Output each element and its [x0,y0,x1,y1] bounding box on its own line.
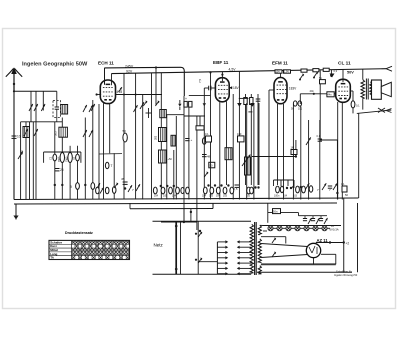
wire input top [14,91,57,100]
svg-text:EBF 11: EBF 11 [213,60,229,65]
wire EFM left [269,90,274,200]
label 4,5V [229,68,237,72]
padder cap [55,168,64,172]
label tube CL 11 [338,60,351,66]
svg-text:104: 104 [202,195,207,198]
bottom right cluster [329,183,348,197]
HT bus [112,69,387,74]
cap 0,1 mid right [317,135,323,141]
wire v x233.2 [232,94,234,200]
cap p2 [298,101,303,111]
wire h left block bottom [21,121,63,123]
wire v x343.75 [343,198,345,272]
wire CL bottom2 [341,102,343,200]
transformer tap comb right [237,240,252,275]
wire v x184 [183,96,185,222]
label Netz [154,243,164,248]
label 9+ [70,185,72,189]
cap p1 [291,101,297,111]
wire v x135.6 [135,73,137,199]
box 1M [291,146,298,155]
wire v x267.8 [267,203,269,223]
wire h y222 riser [183,209,185,223]
voltage selector comb left [217,240,228,275]
wire CL top2 [342,69,344,82]
tube ECH11 [100,80,115,104]
antenna [6,67,22,91]
speaker [372,80,392,99]
trimmer bottom left [96,183,100,190]
selector hook 2 [195,257,203,263]
rc pair 3 [319,218,328,224]
svg-text:9: 9 [70,185,72,189]
selector hook 1 [195,231,203,237]
box 50 right [209,162,215,168]
wire AZ bottom loop [313,258,315,265]
wire v x70.1 [69,146,71,200]
rc pair 2 [311,218,320,224]
resistor bottom A [76,183,80,190]
wire v x300.3 grid drop [299,94,301,104]
switch arrow c2 [89,105,93,112]
resistor r251 [250,98,253,105]
tuned circuit elements [49,153,80,163]
svg-text:4,5V: 4,5V [229,68,237,72]
wire v x20.6 [20,122,22,200]
wire v x156 [155,66,157,105]
wire mains entry [161,221,197,223]
wire ECH bottom lead2 [109,103,111,153]
svg-text:40n: 40n [310,89,315,93]
svg-text:100: 100 [237,132,242,136]
svg-text:7563: 7563 [66,156,69,162]
wire CL top [330,70,333,77]
cap EBF grid [204,86,211,91]
svg-text:245V: 245V [125,64,134,68]
tube CL11 [336,79,351,102]
wire v x99 [98,104,100,200]
wire v x29.5 [29,122,31,200]
selector tap wire [198,261,217,263]
wire v x43 [42,91,44,110]
wire h dashed y153 [99,153,122,155]
wire ECH plate [96,93,163,95]
wire v x54.8 [54,122,56,200]
power transformer secondary top [258,225,261,234]
antenna junction [13,83,15,93]
wire AZ loop vert [261,237,286,244]
junction triangle near CL [330,74,335,78]
label 245V [125,64,134,68]
wire v x36 [35,91,37,199]
wire v x319.8 [319,120,321,200]
coil osc main [160,110,167,118]
wire EBF top [221,72,223,81]
wire v x142.7 [142,95,144,200]
wire v x239.4 [238,72,240,200]
svg-text:Ingelen W-Geogr.50: Ingelen W-Geogr.50 [334,273,358,277]
loop rect below AZ [321,254,336,264]
coil mid lower [159,150,173,163]
svg-text:+50: +50 [168,158,173,161]
X mark on return [378,108,392,113]
audio coupling box [237,132,244,142]
switch hook anode bottom [272,251,276,257]
coil antenna [23,127,30,138]
wire v x92.8 [92,100,94,200]
wire v x358.7 [358,113,360,198]
wire v x204.3 [203,88,205,200]
svg-text:C1: C1 [49,156,53,160]
cap 44n on grid line [327,92,334,97]
mains rail top [153,220,252,222]
wire v x192 [188,107,190,199]
cap cross mid [146,108,152,118]
wire h y116 [184,115,205,117]
label tube EBF 11 [213,60,229,65]
power transformer secondary bottom [258,266,261,274]
wire v x85.3 [84,118,86,200]
wire 245V to detector [105,67,185,96]
svg-text:0,1: 0,1 [341,183,345,186]
voltage selector lead [197,221,199,274]
trimmer bottom mid [124,184,140,192]
switch arrow b1 [24,129,28,136]
wire heater return [263,230,267,232]
wire xfmr top [362,69,364,80]
cap c258 [256,99,261,101]
junction mains dots [190,211,202,232]
svg-text:0,3: 0,3 [334,69,338,73]
wire v x210.5 [210,88,212,200]
label 4V8 [117,87,123,94]
wire speaker bottom [371,94,372,95]
wire h y114.7 [166,114,184,116]
switch mid right [306,137,311,145]
heater lamp 1 [268,226,273,231]
wire EBF left grid [189,71,215,95]
svg-text:500: 500 [20,150,24,155]
switch arrow c3 [83,130,87,137]
svg-text:50n: 50n [273,210,278,214]
wire v x31 [30,91,32,122]
heater lamp 7 [322,226,327,231]
label 92V [126,70,133,74]
resistor LTD [205,132,212,142]
arrow det [245,155,250,163]
wire h 50n line [268,212,299,214]
svg-text:104: 104 [283,195,288,198]
svg-text:363: 363 [54,131,58,136]
svg-text:92V: 92V [126,70,133,74]
resistor pair boxes [184,97,192,107]
trimmer mid1 [134,105,138,112]
arrow on mixer grid [91,104,95,111]
wire v x151.5 [151,73,153,200]
cap in dashed box [55,101,59,122]
power transformer core [255,222,257,275]
svg-text:44n: 44n [328,94,333,97]
svg-text:101: 101 [298,108,303,111]
cap 48 [202,155,211,159]
svg-text:+: + [185,97,187,101]
label tube EFM 11 [272,60,288,65]
label +B [346,242,350,246]
rc pair 1 [303,218,312,224]
output transformer primary [361,80,365,99]
bottom ellipse row mid [153,185,189,194]
ground bus third [130,203,213,209]
box 50n [273,209,281,214]
wire v x251.3 [250,94,252,185]
bottom rail y271 [257,271,352,273]
scan page border [3,29,396,309]
svg-text:45: 45 [121,177,125,181]
resistor 50 [123,129,128,142]
rectifier tube AZ11 [306,243,320,257]
bracket EFM bottom [274,180,295,186]
svg-text:7,5: 7,5 [198,78,202,83]
wire antenna lead [13,84,15,200]
wire EBF bottom2 [226,102,228,186]
wire v x320.2 left of CL [319,71,321,141]
wire AZ to +B [316,241,345,244]
svg-text:25: 25 [60,168,64,172]
cap plus mid [185,138,192,142]
svg-text:ECH 11: ECH 11 [98,61,114,66]
bottom cluster right [292,183,332,192]
heater wire segments [273,227,330,229]
svg-text:10V: 10V [276,71,281,74]
cap 0,1 below CL [351,101,360,108]
svg-text:6V0,3A: 6V0,3A [330,227,339,231]
wire EFM bottom1 [277,104,279,185]
diode mark1 [203,103,206,106]
wire v x253.9 lower [253,103,255,200]
wire coil to x167 [160,118,162,200]
labels above EFM [275,70,291,74]
resistor r245 [244,98,247,105]
wire v x259 lower [258,103,260,185]
table title [65,231,93,235]
trimmer mid2 [140,102,144,109]
label tube AZ 11 [317,238,329,243]
wire CL right lead [350,91,353,113]
label 50V near CL11 [347,71,354,75]
resistor in bus 3 [323,68,329,71]
label 0,3 4,7 [334,69,338,73]
heater lamp 3 [286,226,291,231]
wire v x293.4 [292,104,294,200]
dashed box antenna filter [53,101,61,118]
switch arrow a3 [41,104,45,111]
arrow end of HT bus [386,66,392,71]
text block bottom right [334,270,358,278]
wire v x161.3 [160,73,162,110]
wire h AF y156.5 [252,155,297,157]
svg-text:100n: 100n [274,195,280,198]
wire ECH top lead2 [111,74,113,86]
label coil 363 [54,131,58,136]
svg-text:Drucktastensatz: Drucktastensatz [65,231,93,235]
wire v x173.8 [173,150,175,200]
chassis ground arrow [13,205,18,220]
tuned circuit bracket [44,152,81,163]
pot structure [242,157,251,175]
wire v x26 [20,122,26,200]
junction dots left row [54,184,64,186]
wire v x166.8 [166,115,168,200]
svg-text:105: 105 [163,195,168,198]
output transformer core [366,79,368,100]
wire CL bottom1 [337,102,339,200]
wire EFM top [279,70,281,78]
wire v x296 up [295,140,297,157]
junction dots EBF row [207,184,229,186]
switch arrow c4 [89,130,93,137]
title Ingelen Geographic 50W [22,61,88,67]
wire v x308.6 [308,120,310,200]
wire ECH bottom [103,103,105,199]
mains rail bottom [153,273,252,275]
wire v x357.5 lower [357,203,359,272]
coil osc 1 [61,105,68,115]
svg-text:Netz: Netz [154,243,164,248]
mains switch [175,221,181,274]
svg-text:+2: +2 [346,242,350,246]
tube EFM11 [274,78,287,104]
wire v x300.8 [300,104,302,200]
svg-text:+: + [191,138,193,142]
switch arrow b2 [34,129,38,136]
coil osc 2 [59,127,68,137]
junction dot x85 [84,184,86,186]
wire AZ anode bottom [261,255,308,258]
hook EBF col [204,171,208,177]
tube EBF11 [215,78,229,102]
heater lamp 5 [304,226,309,231]
wire EFM bottom2 [283,104,285,200]
wire v x196.9 [196,116,198,230]
wire v x62.3 [61,118,63,200]
wire sec top to heaters [260,224,341,226]
wire v x196.9b [196,221,198,230]
svg-text:104: 104 [154,195,159,198]
coil det [225,148,232,160]
cap 0,5 [234,185,240,191]
wire AZ anode top [261,244,308,247]
svg-text:EFM 11: EFM 11 [272,60,288,65]
wire v x246.7 lower [246,103,248,200]
wire xfmr bottom return [357,98,392,113]
svg-text:Ingelen Geographic 50W: Ingelen Geographic 50W [22,61,88,67]
heater lamp 6 [313,226,318,231]
label tube ECH 11 [98,61,114,66]
coil mid 383 [155,128,167,142]
svg-text:105: 105 [209,195,214,198]
svg-text:103: 103 [293,195,298,198]
resistor in bus 2 [313,69,319,72]
wire v x77.5 [77,146,79,200]
wire v x245.5 [245,94,247,185]
CL grid line [300,89,335,95]
wire EBF bottom [219,102,221,200]
bottom ellipse row EFM [246,186,305,198]
ellipse on EBF col [202,138,206,145]
switch hook anode top [272,237,276,243]
svg-text:183V: 183V [289,87,297,91]
wire h y140 right [320,139,338,141]
svg-text:104: 104 [216,195,221,198]
cap 0T [105,162,112,168]
resistor in bus 1 [301,69,307,72]
label 18V [229,86,240,90]
power transformer secondary mid [258,239,261,263]
svg-text:50V: 50V [347,71,354,75]
coil osc trap [171,135,176,146]
heater lamp 2 [277,226,282,231]
bottom labels mid [154,195,177,198]
switch arrow a1 [29,104,33,111]
ground bus [14,198,359,200]
cap bottom 45b [96,182,119,193]
svg-text:Schaltplan Nr.: Schaltplan Nr. [336,270,352,274]
thick line y264 [261,263,336,265]
switch hook o1 [143,100,147,106]
switch hook o2 [155,100,159,106]
power transformer primary winding [250,224,253,273]
cap 44n box mid [319,77,325,84]
svg-text:50: 50 [123,129,127,133]
pushbutton function table [49,240,130,259]
svg-text:0,1: 0,1 [356,104,360,108]
junction ECH grid [99,94,136,96]
svg-text:104: 104 [172,195,177,198]
wire speaker top [371,82,372,84]
label 183V [289,87,297,91]
wire v x124 [123,73,125,199]
svg-text:3563: 3563 [58,156,61,162]
antenna coupling cap [12,135,21,139]
hook below bus 2 [313,71,318,78]
svg-text:1,9V: 1,9V [284,71,289,74]
rc bracket [299,213,328,218]
svg-text:48: 48 [207,155,211,159]
wire v x33.3 [32,122,34,200]
svg-text:103: 103 [223,195,228,198]
ground bus second [14,203,337,204]
wire v x114.2 [113,153,115,199]
diode mark2 [237,98,255,112]
svg-text:T: T [111,164,113,168]
resistor bottom B [91,183,95,190]
wire v x337 lower [336,140,338,200]
wire v x258 [257,94,259,185]
svg-text:383: 383 [155,135,158,140]
output transformer secondary [370,82,373,94]
svg-text:18V: 18V [233,86,240,90]
label 7,5 [198,78,202,83]
bottom ellipse row EBF [202,187,234,198]
svg-text:0,1: 0,1 [205,132,209,136]
wire table stub [129,203,131,209]
switch arrow a2 [34,104,38,111]
wire v x190.9 [190,209,192,222]
box at 196-204 [196,116,204,130]
cap 45 label [121,177,128,184]
trimmer input [18,151,23,159]
svg-text:CL 11: CL 11 [338,60,351,66]
